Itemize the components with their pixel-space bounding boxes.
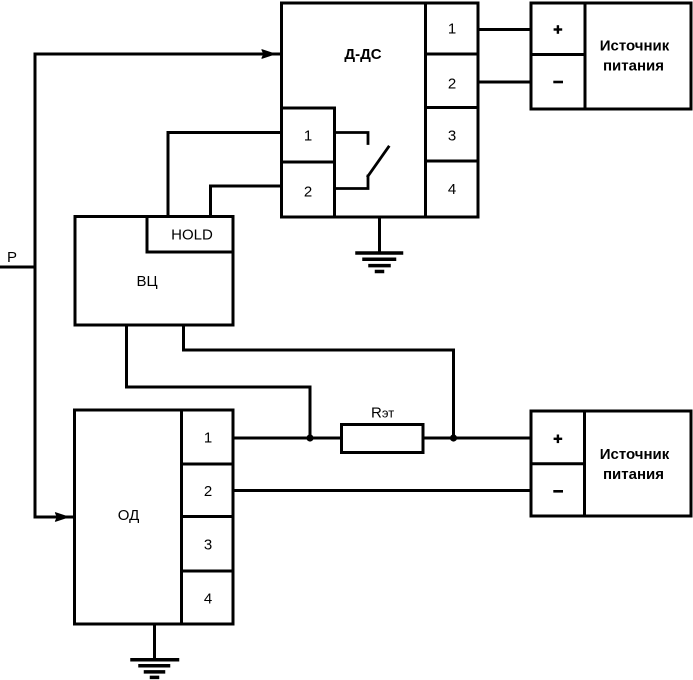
node A junction dot (306, 434, 313, 441)
power supply 1 (top right) (531, 3, 691, 109)
terminal column divider of power supply 2 (583, 411, 586, 516)
svg-text:4: 4 (204, 591, 212, 608)
svg-text:1: 1 (448, 21, 456, 38)
wire HOLD pin1 to Д-ДС terminal 1 (168, 133, 282, 217)
node B junction dot (450, 434, 457, 441)
wire P vertical bus (34, 54, 37, 517)
divider pins 3/4 of Д-ДС column (426, 160, 479, 163)
divider pins 3/4 of ОД column (182, 570, 234, 573)
wire top horizontal into Д-ДС (35, 53, 282, 56)
wire Д-ДС terminal 2 to PS1 minus (478, 81, 531, 84)
divider +/− of power supply 2 (531, 462, 585, 465)
ground under ОД (153, 624, 156, 658)
svg-text:ОД: ОД (118, 507, 140, 524)
svg-text:3: 3 (204, 537, 212, 554)
switch S1 inside Д-ДС (335, 133, 369, 144)
wire Д-ДС terminal 1 to PS1 plus (478, 28, 531, 31)
divider pins 1/2 of sub-block (282, 161, 335, 164)
terminal column of ОД (180, 410, 183, 624)
divider pins 1/2 of ОД column (182, 463, 234, 466)
label plus PS1 (554, 28, 563, 30)
svg-text:2: 2 (304, 184, 312, 201)
svg-text:2: 2 (448, 76, 456, 93)
arrowhead into Д-ДС (262, 50, 275, 58)
svg-text:питания: питания (603, 466, 664, 483)
block Д-ДС (converter D-DS) (282, 3, 479, 217)
svg-text:1: 1 (304, 128, 312, 145)
sub-block terminals 1-2 inside Д-ДС (282, 107, 335, 110)
resistor Rэт (342, 425, 424, 453)
svg-text:Источник: Источник (600, 38, 670, 55)
svg-text:4: 4 (448, 181, 456, 198)
wire ОД terminal 1 to resistor to PS2 plus (233, 437, 342, 440)
svg-text:Р: Р (7, 249, 17, 266)
wire P stub (0, 266, 35, 269)
label plus PS2 (554, 438, 563, 440)
svg-text:ВЦ: ВЦ (136, 273, 157, 290)
svg-text:1: 1 (204, 430, 212, 447)
wire bottom into ОД (35, 516, 75, 519)
svg-text:HOLD: HOLD (171, 227, 213, 244)
wire HOLD pin2 to Д-ДС terminal 2 (211, 186, 282, 217)
block ОД (OD) (75, 410, 234, 624)
wire ВЦ pinA to node A (127, 325, 311, 438)
svg-text:2: 2 (204, 483, 212, 500)
divider +/− of power supply 1 (531, 53, 585, 56)
power supply 2 (bottom right) (531, 411, 691, 516)
block ВЦ (input circuit) (75, 217, 233, 326)
divider pins 1/2 of Д-ДС column (426, 53, 479, 56)
svg-text:Д-ДС: Д-ДС (344, 46, 381, 63)
arrowhead into ОД (56, 513, 69, 521)
svg-text:Источник: Источник (600, 446, 670, 463)
ground under Д-ДС (378, 217, 381, 252)
divider pins 2/3 of ОД column (182, 515, 234, 518)
label minus PS1 (553, 81, 563, 84)
svg-text:питания: питания (603, 58, 664, 75)
terminal column of Д-ДС (424, 3, 427, 217)
svg-text:3: 3 (448, 128, 456, 145)
terminal column divider of power supply 1 (584, 3, 587, 109)
svg-text:Rэт: Rэт (371, 405, 394, 422)
label minus PS2 (553, 490, 563, 493)
wire ОД terminal 2 to PS2 minus (233, 489, 531, 492)
HOLD sub-block of ВЦ (146, 217, 149, 253)
divider pins 2/3 of Д-ДС column (426, 106, 479, 109)
wire ВЦ pinB to node B (184, 325, 454, 438)
